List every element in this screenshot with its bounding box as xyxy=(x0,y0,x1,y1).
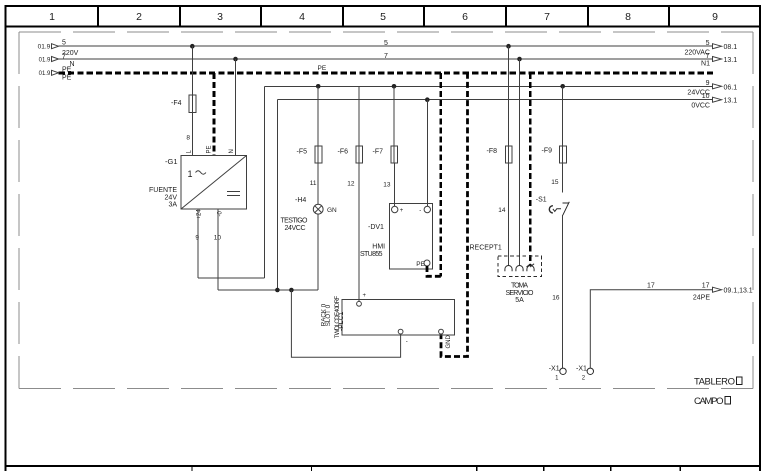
wire to F9 xyxy=(562,86,564,146)
node N to socket xyxy=(517,57,522,62)
svg-text:-X1: -X1 xyxy=(576,366,587,373)
arrow in PE left xyxy=(39,70,59,77)
svg-text:7: 7 xyxy=(62,53,66,60)
PE bus (thick dashed) xyxy=(59,71,714,74)
svg-text:08.1: 08.1 xyxy=(724,44,738,51)
wire F9 to S1, number 15 xyxy=(551,163,562,193)
fuse F6 xyxy=(338,146,363,163)
svg-text:2: 2 xyxy=(136,11,142,23)
fuse F4 xyxy=(171,95,196,113)
tablero/campo boundary dashed line xyxy=(19,388,753,390)
svg-text:09.1,13.1: 09.1,13.1 xyxy=(724,287,753,294)
G1 AC symbol xyxy=(188,169,206,179)
PLC box xyxy=(342,300,454,335)
svg-text:01.9: 01.9 xyxy=(39,71,51,77)
arrow out 24VCC right xyxy=(687,80,737,96)
svg-text:3: 3 xyxy=(217,11,223,23)
node 0VCC to HMI minus xyxy=(425,97,430,102)
svg-text:STU855: STU855 xyxy=(360,251,383,258)
svg-text:PE: PE xyxy=(62,75,72,82)
wire N to socket xyxy=(519,59,521,265)
label TABLERO xyxy=(694,376,742,387)
HMI PE terminal xyxy=(416,260,430,268)
svg-text:24PE: 24PE xyxy=(693,294,710,301)
PLC GND terminal xyxy=(439,329,444,334)
lamp H4 xyxy=(313,204,323,214)
svg-text:1: 1 xyxy=(188,169,193,179)
svg-text:-G1: -G1 xyxy=(165,157,178,166)
terminal X1:1 xyxy=(549,366,567,382)
svg-text:06.1: 06.1 xyxy=(724,84,738,91)
wire F8 to socket, number 14 xyxy=(498,163,508,265)
wire 10 from G1 xyxy=(214,209,222,290)
fuse F5 xyxy=(297,146,322,163)
svg-text:7: 7 xyxy=(706,53,710,60)
svg-text:5: 5 xyxy=(62,40,66,47)
svg-text:-: - xyxy=(406,339,408,345)
svg-text:5A: 5A xyxy=(515,297,524,304)
svg-text:5: 5 xyxy=(380,11,386,23)
svg-text:-F4: -F4 xyxy=(171,100,182,107)
svg-text:-PLC1: -PLC1 xyxy=(338,312,345,331)
wire 24VCC (line 9) xyxy=(265,85,713,87)
node N to G1 xyxy=(233,57,238,62)
svg-text:-F8: -F8 xyxy=(487,148,498,155)
arrow out 0VCC right xyxy=(691,93,737,109)
node 220V to F8 xyxy=(506,44,511,49)
svg-text:-H4: -H4 xyxy=(295,197,306,204)
svg-text:13.1: 13.1 xyxy=(724,57,738,64)
svg-text:-F5: -F5 xyxy=(297,149,308,156)
label TESTIGO 24VCC xyxy=(281,218,309,233)
svg-text:01.9: 01.9 xyxy=(39,57,51,63)
wire lamp to 0V bus xyxy=(317,214,319,290)
arrow in N left xyxy=(39,57,59,64)
node 220V to F4 xyxy=(190,44,195,49)
svg-text:FUENTE: FUENTE xyxy=(149,187,177,194)
arrow out 24PE right xyxy=(693,283,753,302)
svg-text:-: - xyxy=(419,208,421,214)
fuse F9 xyxy=(542,146,567,163)
svg-text:SERVICIO: SERVICIO xyxy=(506,290,535,297)
HMI DV1 box xyxy=(389,204,432,270)
header column numbers xyxy=(49,11,718,23)
svg-text:8: 8 xyxy=(186,135,190,142)
svg-text:GN: GN xyxy=(327,207,337,214)
wire N (line 7) xyxy=(59,58,713,60)
PE dashed drop B xyxy=(439,73,442,276)
label PE left xyxy=(62,67,72,82)
svg-text:N: N xyxy=(229,149,235,153)
svg-text:16: 16 xyxy=(552,295,560,302)
node PLC 0V branch xyxy=(289,288,294,293)
PE wire HMI to drop B xyxy=(427,266,441,276)
svg-text:14: 14 xyxy=(498,207,506,214)
wire G1 -0 bus at y290 xyxy=(218,289,318,291)
node 24VCC to F5 xyxy=(316,84,321,89)
label FUENTE 24V 3A xyxy=(149,187,177,209)
label CAMPO xyxy=(694,396,731,407)
svg-text:SLOT 0: SLOT 0 xyxy=(325,304,332,326)
arrow out N1 right xyxy=(701,53,737,68)
svg-text:10: 10 xyxy=(702,93,710,100)
wire to F5 xyxy=(317,86,319,146)
PE dashed drop C to PLC GND xyxy=(441,73,468,357)
wire F4 to G1 pin L, number 8 xyxy=(186,113,192,156)
node 24VCC to F9 xyxy=(560,84,565,89)
svg-text:-X1: -X1 xyxy=(549,366,560,373)
socket contact 1 xyxy=(505,266,512,272)
wire 220V (line 5) xyxy=(59,45,713,47)
power supply G1 box xyxy=(181,156,247,210)
svg-text:10: 10 xyxy=(214,235,222,242)
fuse F7 xyxy=(373,146,398,163)
HMI plus terminal xyxy=(392,206,404,214)
node 0V rail join xyxy=(275,288,280,293)
svg-text:12: 12 xyxy=(347,180,355,187)
header column dividers xyxy=(98,6,669,27)
svg-text:-DV1: -DV1 xyxy=(368,224,384,231)
label HMI STU855 xyxy=(360,243,385,257)
svg-text:TABLERO: TABLERO xyxy=(694,376,735,387)
svg-text:HMI: HMI xyxy=(372,243,385,250)
svg-text:-F7: -F7 xyxy=(373,149,384,156)
wire G1 +24 loop to 24VCC rail xyxy=(198,86,265,278)
title block tick marks bottom xyxy=(192,466,680,471)
PLC plus terminal xyxy=(357,293,367,306)
svg-text:24VCC: 24VCC xyxy=(285,225,306,232)
svg-text:9: 9 xyxy=(706,80,710,87)
wire X1:2 to 24PE arrow xyxy=(590,290,712,368)
socket contact 2 xyxy=(516,265,523,271)
svg-text:PE: PE xyxy=(318,65,327,72)
svg-text:7: 7 xyxy=(544,11,550,23)
wire F7 to HMI plus, number 13 xyxy=(383,163,394,206)
label wire 5 left xyxy=(62,40,79,57)
switch S1 xyxy=(549,202,569,215)
PLC rotated labels xyxy=(321,296,345,339)
svg-text:RECEPT1: RECEPT1 xyxy=(470,245,502,252)
svg-text:-S1: -S1 xyxy=(536,196,547,203)
svg-text:9: 9 xyxy=(195,235,199,242)
wire 0VCC rail drop xyxy=(276,100,278,290)
svg-text:-F6: -F6 xyxy=(338,149,349,156)
svg-text:7: 7 xyxy=(384,53,388,60)
svg-text:5: 5 xyxy=(706,40,710,47)
svg-text:15: 15 xyxy=(551,179,559,186)
svg-text:TOMA: TOMA xyxy=(511,282,528,289)
svg-text:1: 1 xyxy=(49,11,55,23)
svg-text:11: 11 xyxy=(310,180,317,187)
svg-text:9: 9 xyxy=(712,11,718,23)
svg-text:-F9: -F9 xyxy=(542,148,553,155)
svg-text:13.1: 13.1 xyxy=(724,98,738,105)
PE dashed drop D to socket xyxy=(529,73,532,266)
arrow out 220VAC right xyxy=(684,40,737,57)
wire 24VCC to F6 xyxy=(358,86,360,146)
svg-text:N1: N1 xyxy=(701,60,710,67)
svg-text:17: 17 xyxy=(702,283,710,290)
svg-text:GND: GND xyxy=(446,335,452,349)
svg-text:+: + xyxy=(400,208,404,214)
svg-text:TESTIGO: TESTIGO xyxy=(281,218,309,225)
wire 0VCC down to HMI minus xyxy=(426,100,428,207)
svg-text:01.9: 01.9 xyxy=(38,44,51,51)
svg-text:4: 4 xyxy=(299,11,305,23)
svg-text:17: 17 xyxy=(647,282,655,289)
svg-text:24V: 24V xyxy=(165,194,178,201)
wire F5 to lamp, number 11 xyxy=(310,163,318,204)
label wire 7 left xyxy=(62,53,75,68)
PE dashed drop to G1 xyxy=(213,73,216,156)
svg-text:PE: PE xyxy=(207,145,213,153)
svg-text:13: 13 xyxy=(383,181,391,188)
svg-text:+24: +24 xyxy=(197,209,203,220)
svg-text:3A: 3A xyxy=(168,202,177,209)
fuse F8 xyxy=(487,146,513,163)
svg-text:+: + xyxy=(363,293,367,299)
wire S1 to X1:1, number 16 xyxy=(552,215,562,368)
svg-text:8: 8 xyxy=(625,11,631,23)
svg-text:PE: PE xyxy=(62,67,72,74)
socket contact 3 (PE) xyxy=(527,264,535,272)
wire 9 from G1 xyxy=(195,209,199,278)
wire down to PLC minus xyxy=(291,290,400,357)
wire 220V down to F4 xyxy=(191,46,193,95)
arrow in 220V left xyxy=(38,44,59,51)
wire to F8 xyxy=(508,46,510,146)
svg-text:PE: PE xyxy=(416,261,425,268)
HMI minus terminal xyxy=(419,206,430,214)
svg-text:6: 6 xyxy=(462,11,468,23)
svg-text:CAMPO: CAMPO xyxy=(694,396,724,407)
socket dashed box xyxy=(498,256,542,276)
terminal X1:2 xyxy=(576,366,594,382)
label TOMA SERVICIO 5A xyxy=(506,282,535,304)
svg-text:5: 5 xyxy=(384,40,388,47)
node 24VCC to F7 xyxy=(392,84,397,89)
svg-text:0VCC: 0VCC xyxy=(691,102,710,109)
inner gray dashed frame xyxy=(19,32,753,389)
wire 0VCC (line 10) xyxy=(277,99,712,101)
wire F6 to PLC plus, number 12 xyxy=(347,163,359,302)
PLC minus terminal xyxy=(398,329,408,345)
wire N down to G1 pin N xyxy=(235,59,237,156)
wire to F7 xyxy=(393,86,395,146)
